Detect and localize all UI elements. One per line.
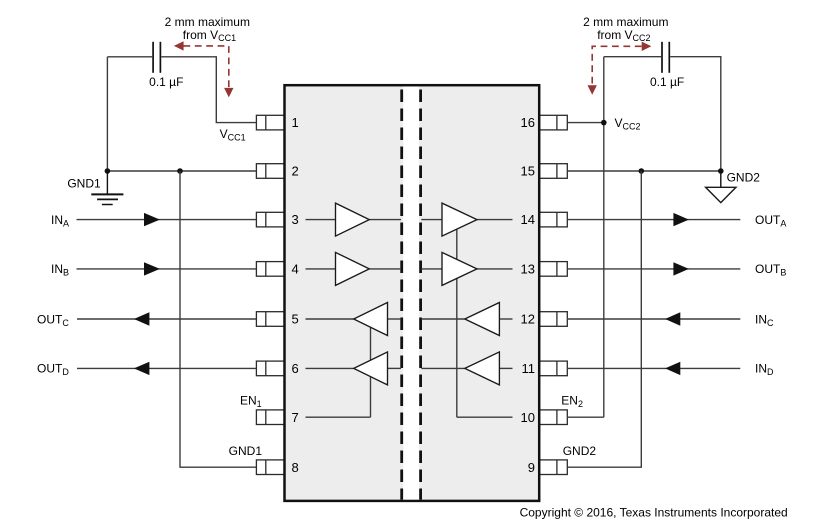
wire IN_A	[77, 219, 257, 221]
svg-text:EN2: EN2	[561, 394, 583, 410]
wire buffer A to barrier	[369, 219, 401, 221]
pin 9 box	[539, 460, 567, 475]
wire buffer D output to pin6	[306, 367, 354, 369]
dashed annotation arrow right (to C2)	[592, 46, 641, 86]
svg-text:15: 15	[521, 164, 535, 179]
wire OUT_C	[77, 318, 256, 320]
wire buffer C2 output to barrier	[421, 318, 465, 320]
svg-text:7: 7	[292, 410, 299, 425]
svg-text:2 mm maximum: 2 mm maximum	[165, 15, 250, 29]
wire buffer B2 to pin13	[477, 268, 513, 270]
svg-text:GND1: GND1	[67, 177, 101, 191]
svg-text:EN1: EN1	[240, 394, 262, 410]
node GND1 junction at C1 branch	[105, 168, 111, 174]
svg-text:0.1 µF: 0.1 µF	[149, 75, 183, 89]
signal arrow OUT_B	[673, 262, 689, 275]
signal arrow IN_D	[665, 362, 680, 375]
pin 16 box	[539, 115, 567, 130]
wire buffer B to barrier	[369, 268, 401, 270]
svg-text:10: 10	[521, 410, 535, 425]
wire C2 to GND2 corner	[670, 57, 721, 171]
svg-text:INB: INB	[51, 262, 69, 278]
wire pin10 EN2	[457, 416, 513, 418]
svg-text:14: 14	[521, 212, 535, 227]
wire buffer D2 output to barrier	[421, 367, 465, 369]
signal arrow IN_A	[144, 213, 160, 226]
wire pin16 VCC2	[567, 122, 604, 124]
wire GND1 to C1 top	[107, 56, 152, 58]
wire buffer A2 to pin14	[477, 219, 513, 221]
svg-text:6: 6	[292, 361, 299, 376]
wire pin3 to buffer A input	[306, 219, 336, 221]
signal arrow IN_C	[665, 312, 680, 325]
wire barrier to buffer B2 input	[421, 268, 442, 270]
capacitor C2 0.1uF right plate	[668, 42, 670, 73]
node VCC2 junction	[601, 120, 607, 126]
svg-text:12: 12	[521, 312, 535, 327]
buffer channel D side2	[465, 352, 500, 385]
wire pin4 to buffer B input	[306, 268, 336, 270]
wire VCC2 bus top to C2	[604, 56, 661, 58]
pin 7 box	[256, 410, 284, 425]
wire barrier to buffer D	[388, 367, 402, 369]
ground GND1 symbol bar 3	[102, 204, 113, 206]
isolation barrier dashed line right	[419, 87, 422, 500]
wire pin12 to buffer C2 input	[499, 318, 512, 320]
isolation barrier white band	[403, 87, 419, 500]
svg-text:GND2: GND2	[563, 444, 597, 458]
ground GND1 symbol bar 2	[97, 198, 118, 200]
signal arrow IN_B	[144, 262, 160, 275]
svg-text:INC: INC	[755, 312, 774, 328]
wire OUT_A	[567, 219, 740, 221]
wire IN_B	[77, 268, 257, 270]
signal arrow OUT_D	[134, 362, 150, 375]
wire OUT_D	[77, 367, 256, 369]
buffer channel B side1	[336, 252, 370, 285]
svg-text:Copyright © 2016, Texas Instru: Copyright © 2016, Texas Instruments Inco…	[520, 506, 788, 520]
node GND1 junction bus	[177, 168, 183, 174]
pin 2 box	[256, 164, 284, 179]
ground GND2 symbol triangle	[706, 187, 736, 202]
ground GND1 symbol stub	[106, 171, 108, 194]
svg-text:8: 8	[292, 460, 299, 475]
op-amp U1 IC body (16-pin digital isolator)	[285, 85, 540, 501]
capacitor C1 0.1uF right plate	[159, 42, 161, 73]
buffer channel C side2	[465, 303, 500, 336]
wire pin2 GND1	[107, 170, 256, 172]
svg-text:0.1 µF: 0.1 µF	[650, 75, 684, 89]
svg-text:3: 3	[292, 212, 299, 227]
wire IN_D	[567, 367, 740, 369]
ground GND2 symbol stub	[720, 171, 722, 187]
svg-text:from VCC2: from VCC2	[597, 28, 650, 43]
buffer channel A side1	[336, 203, 370, 236]
svg-text:GND1: GND1	[229, 444, 263, 458]
wire pin15 GND2	[567, 170, 721, 172]
svg-text:1: 1	[292, 115, 299, 130]
svg-text:OUTC: OUTC	[37, 312, 69, 328]
svg-text:13: 13	[521, 262, 535, 277]
wire pin11 to buffer D2 input	[499, 367, 512, 369]
svg-text:4: 4	[292, 262, 299, 277]
svg-text:2 mm maximum: 2 mm maximum	[583, 15, 668, 29]
wire pin7 EN1	[306, 416, 371, 418]
ground GND1 symbol bar 1	[91, 193, 123, 195]
wire GND1 vertical from C1	[106, 57, 108, 171]
pin 4 box	[256, 262, 284, 277]
wire GND2 bus to pin9	[567, 171, 641, 467]
buffer channel D side1	[354, 352, 388, 385]
wire barrier to buffer A2 input	[421, 219, 442, 221]
svg-text:VCC2: VCC2	[615, 116, 641, 132]
svg-text:OUTA: OUTA	[755, 213, 786, 229]
wire GND1 bus to pin8	[180, 171, 256, 467]
pin 11 box	[539, 361, 567, 376]
node GND2 junction C2	[718, 168, 724, 174]
buffer channel B side2	[442, 252, 477, 285]
svg-text:9: 9	[528, 460, 535, 475]
pin 1 box	[256, 115, 284, 130]
wire VCC2 bus vertical (to EN2)	[603, 57, 605, 418]
buffer channel A side2	[442, 203, 477, 236]
wire buffer C output to pin5	[306, 318, 354, 320]
dashed annotation arrowhead down (to VCC1 wire)	[224, 88, 233, 98]
pin 13 box	[539, 262, 567, 277]
svg-text:VCC1: VCC1	[220, 127, 246, 143]
pin 6 box	[256, 361, 284, 376]
wire OUT_B	[567, 268, 740, 270]
wire EN2 bus vertical	[456, 220, 458, 418]
svg-text:11: 11	[522, 361, 536, 376]
svg-text:from VCC1: from VCC1	[183, 28, 236, 43]
isolation barrier dashed line left	[400, 87, 403, 500]
buffer channel C side1	[354, 303, 388, 336]
node GND2 junction bus	[639, 168, 645, 174]
capacitor C1 0.1uF left plate	[152, 42, 154, 73]
svg-text:OUTB: OUTB	[755, 262, 786, 278]
wire EN1 bus vertical	[370, 319, 372, 417]
pin 15 box	[539, 164, 567, 179]
signal arrow OUT_C	[134, 312, 150, 325]
pin 3 box	[256, 212, 284, 227]
svg-text:IND: IND	[755, 362, 774, 378]
svg-text:OUTD: OUTD	[37, 362, 69, 378]
wire pin10 EN2 to VCC2 bus	[567, 416, 604, 418]
svg-text:5: 5	[292, 312, 299, 327]
signal arrow OUT_A	[673, 213, 689, 226]
svg-text:2: 2	[292, 164, 299, 179]
wire C1 to VCC1 corner	[161, 57, 256, 123]
pin 14 box	[539, 212, 567, 227]
svg-text:GND2: GND2	[727, 171, 761, 185]
pin 8 box	[256, 460, 284, 475]
pin 10 box	[539, 410, 567, 425]
pin 5 box	[256, 312, 284, 327]
svg-text:16: 16	[521, 115, 535, 130]
dashed annotation arrowhead down (to VCC2 wire)	[588, 85, 597, 95]
wire barrier to buffer C	[388, 318, 402, 320]
svg-text:INA: INA	[51, 213, 69, 229]
pin 12 box	[539, 312, 567, 327]
dashed annotation arrow left (to C1)	[183, 46, 228, 88]
capacitor C2 0.1uF left plate	[661, 42, 663, 73]
wire IN_C	[567, 318, 740, 320]
